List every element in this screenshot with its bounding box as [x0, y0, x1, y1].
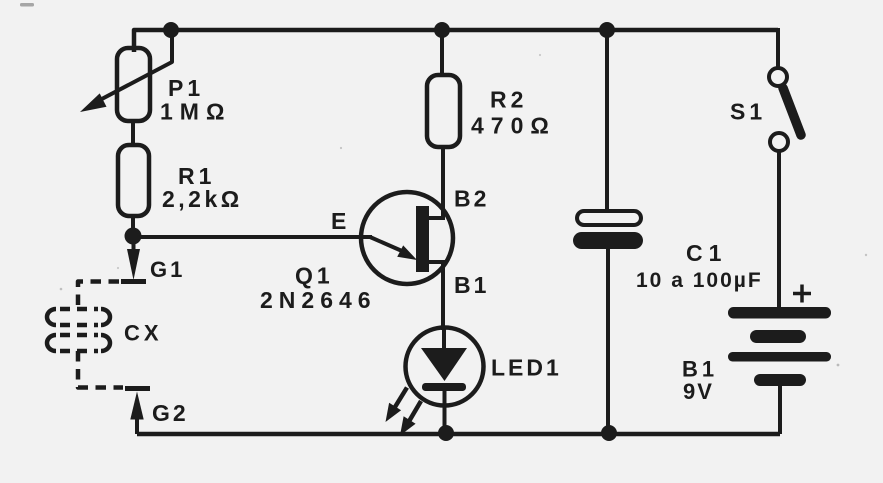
Q1 emitter diagonal	[370, 237, 402, 251]
wire emitter E	[133, 235, 372, 239]
svg-text:10 a 100µF: 10 a 100µF	[636, 269, 763, 292]
Q1 B1 lead	[429, 260, 445, 264]
svg-text:1MΩ: 1MΩ	[160, 99, 231, 125]
G2 terminal bar	[125, 386, 150, 391]
wire S1 to battery	[777, 151, 781, 307]
battery plus sign	[793, 285, 811, 303]
svg-text:P1: P1	[168, 75, 204, 101]
sensor CX top plate	[47, 309, 110, 325]
wire rail to R2	[440, 30, 444, 75]
svg-text:9V: 9V	[683, 379, 714, 404]
wire P1 wiper from top-rail junction	[98, 31, 172, 101]
svg-text:G1: G1	[150, 257, 185, 282]
node junction below R1	[125, 228, 142, 245]
svg-text:C1: C1	[686, 240, 727, 266]
node junction bottom rail C1	[601, 425, 617, 441]
LED light arrow 2 head	[400, 416, 416, 435]
svg-text:B2: B2	[454, 186, 489, 212]
capacitor C1 top plate	[577, 211, 641, 225]
svg-text:B1: B1	[682, 357, 718, 382]
svg-text:470Ω: 470Ω	[471, 113, 556, 139]
node junction top rail C1	[599, 22, 615, 38]
svg-text:G2: G2	[152, 400, 189, 426]
resistor R1 body	[118, 145, 149, 216]
svg-text:Q1: Q1	[295, 263, 334, 289]
arrow G2 head (up)	[130, 392, 143, 420]
svg-text:S1: S1	[730, 99, 766, 125]
arrow G1 head (down)	[127, 249, 140, 280]
wire C1 to bottom rail	[606, 249, 610, 433]
svg-text:2,2kΩ: 2,2kΩ	[162, 186, 243, 212]
battery B1 plate 1 long	[728, 307, 831, 319]
LED cathode bar	[422, 383, 466, 391]
LED light arrow 1 shaft	[395, 388, 407, 408]
wire into LED anode	[442, 328, 446, 350]
sensor CX bottom plate	[47, 335, 110, 351]
svg-text:CX: CX	[124, 321, 163, 346]
wire right side rail to switch	[776, 28, 780, 68]
switch S1 blade	[783, 88, 801, 135]
battery B1 plate 2 short	[750, 330, 806, 343]
LED triangle	[421, 348, 467, 381]
wire B1 to LED	[441, 262, 445, 330]
wire bottom rail	[137, 432, 780, 437]
G1 terminal bar	[121, 279, 146, 284]
LED1 circle	[406, 328, 484, 406]
node junction bottom rail LED	[438, 425, 454, 441]
switch S1 top contact	[769, 68, 787, 86]
battery B1 plate 3 long	[728, 352, 831, 362]
svg-text:B1: B1	[454, 272, 489, 298]
svg-text:2N2646: 2N2646	[260, 287, 377, 313]
node junction top rail P1	[163, 22, 179, 38]
Q1 base bar	[416, 206, 429, 272]
wire LED to bottom rail	[443, 391, 447, 433]
P1 wiper arrowhead	[80, 93, 107, 112]
svg-text:E: E	[331, 208, 346, 234]
arrow G2 stem	[135, 418, 139, 434]
Q1 B2 lead	[429, 216, 445, 220]
wire battery to bottom rail	[778, 386, 782, 434]
wire dashed G1 to CX top	[78, 282, 119, 310]
LED light arrow 2 shaft	[410, 401, 422, 421]
transistor Q1 circle	[361, 192, 453, 284]
svg-text:LED1: LED1	[491, 355, 562, 381]
node junction top rail R2	[434, 22, 450, 38]
wire rail to C1	[605, 30, 609, 211]
battery B1 plate 4 short	[754, 374, 806, 386]
wire P1 to R1	[131, 121, 135, 145]
wire R2 to B2	[441, 147, 445, 218]
wire top rail	[134, 30, 778, 52]
capacitor C1 bottom plate	[573, 232, 643, 249]
LED light arrow 1 head	[386, 403, 402, 422]
arrow G1 stem	[132, 236, 136, 251]
switch S1 bottom contact	[770, 133, 788, 151]
Q1 emitter arrowhead	[397, 245, 417, 260]
wire R1 to node E	[131, 216, 135, 236]
resistor R2 body	[427, 75, 460, 147]
potentiometer P1 body	[117, 48, 150, 121]
svg-text:R2: R2	[490, 87, 527, 113]
wire dashed CX bottom to G2	[78, 351, 123, 388]
